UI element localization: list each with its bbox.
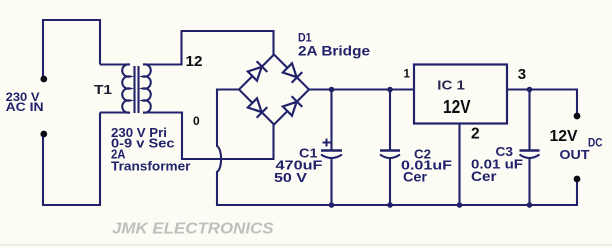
wire secondary 12 tap to bridge top <box>143 31 274 65</box>
wire capacitor C2 branch <box>389 90 391 206</box>
svg-text:IC 1: IC 1 <box>437 78 465 93</box>
wire IC pin2 to ground <box>458 125 460 206</box>
IC1 voltage regulator box <box>414 65 507 124</box>
svg-text:T1: T1 <box>94 83 112 97</box>
svg-text:JMK ELECTRONICS: JMK ELECTRONICS <box>112 221 274 238</box>
transformer T1 core <box>135 66 139 113</box>
junction node C3 top <box>527 87 533 93</box>
junction node C1 bottom <box>329 202 335 208</box>
bottom artifact line <box>0 244 612 246</box>
wire secondary 0 tap to bridge bottom <box>143 113 274 160</box>
svg-text:Cer: Cer <box>471 169 497 184</box>
svg-text:12: 12 <box>186 54 203 70</box>
svg-text:AC IN: AC IN <box>6 102 44 114</box>
wire capacitor C1 branch <box>330 90 332 206</box>
capacitor C1 plates <box>321 151 342 159</box>
svg-text:Transformer: Transformer <box>111 159 191 174</box>
svg-text:3: 3 <box>518 66 526 83</box>
svg-text:2: 2 <box>471 126 480 143</box>
transformer T1 primary top lead <box>100 63 130 65</box>
junction node C2 top <box>387 87 393 93</box>
terminal DC out minus <box>574 176 581 183</box>
capacitor C2 plates <box>380 151 400 159</box>
svg-text:12V: 12V <box>550 128 579 145</box>
bridge D1 diamond <box>239 55 309 125</box>
junction node C3 bottom <box>527 202 533 208</box>
svg-text:2A Bridge: 2A Bridge <box>298 42 370 58</box>
svg-text:OUT: OUT <box>560 148 590 162</box>
junction node C2 bottom <box>387 202 393 208</box>
wire capacitor C3 branch <box>528 90 530 206</box>
svg-text:1: 1 <box>404 69 411 81</box>
svg-text:0: 0 <box>193 114 200 128</box>
wire ground bottom rail <box>216 180 577 205</box>
diode D1c bottom-left arm <box>247 98 267 118</box>
wire positive rail to IC pin1 <box>309 88 414 90</box>
svg-text:Cer: Cer <box>403 170 428 185</box>
capacitor C1 plus sign <box>323 139 331 147</box>
transformer T1 primary winding <box>122 64 130 112</box>
terminal DC out plus <box>574 113 581 120</box>
svg-text:50 V: 50 V <box>274 170 307 185</box>
wire bridge negative to ground rail with hop <box>217 90 239 206</box>
wire IC pin3 to output <box>507 90 577 118</box>
diode D1a top-left arm <box>247 61 267 81</box>
transformer T1 primary bottom lead <box>100 111 130 113</box>
junction node pin2 bottom <box>457 202 463 208</box>
diode D1b top-right arm <box>282 63 302 83</box>
diode D1d bottom-right arm <box>282 96 302 116</box>
capacitor C3 plates <box>520 151 540 159</box>
terminal AC in bottom <box>40 131 47 138</box>
wire AC top loop <box>43 20 100 77</box>
wire AC bottom loop <box>43 113 100 206</box>
svg-text:12V: 12V <box>443 97 471 117</box>
transformer T1 secondary winding <box>143 64 151 112</box>
svg-text:DC: DC <box>588 138 603 150</box>
junction node C1 top <box>329 87 335 93</box>
terminal AC in top <box>40 76 47 83</box>
